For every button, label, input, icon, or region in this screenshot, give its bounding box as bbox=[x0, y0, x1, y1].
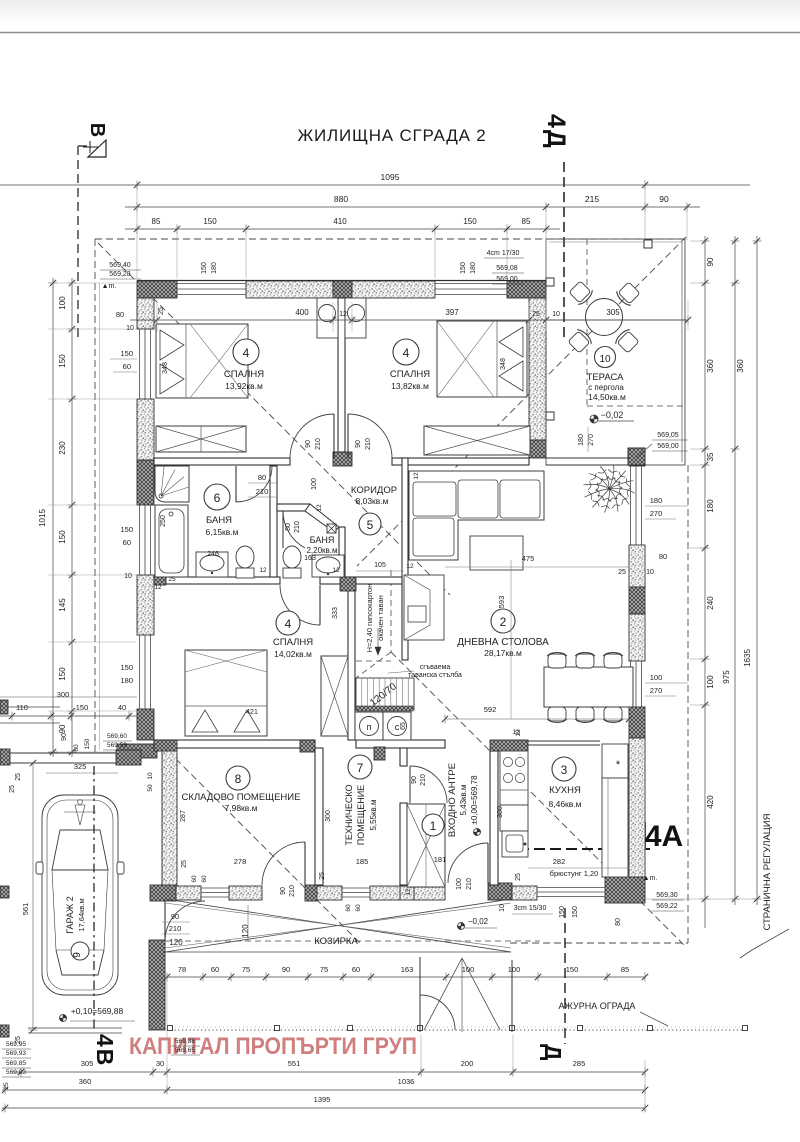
bed bedroom4 bbox=[185, 650, 267, 736]
svg-text:60: 60 bbox=[191, 875, 198, 883]
svg-text:300: 300 bbox=[497, 806, 504, 818]
technical south window bbox=[342, 887, 370, 889]
right dim column 1635 bbox=[756, 236, 758, 905]
room 4 bedroom2 label bbox=[393, 339, 419, 365]
svg-text:90: 90 bbox=[659, 194, 669, 204]
svg-text:80: 80 bbox=[116, 310, 124, 319]
svg-text:120: 120 bbox=[169, 938, 183, 947]
svg-text:СТРАНИЧНА РЕГУЛАЦИЯ: СТРАНИЧНА РЕГУЛАЦИЯ bbox=[762, 813, 773, 930]
left dim column segments bbox=[71, 278, 73, 757]
garage west posts bbox=[0, 886, 9, 898]
canopy west wall bbox=[149, 940, 165, 1030]
bath2 walls bbox=[277, 504, 310, 511]
svg-text:КОРИДОР: КОРИДОР bbox=[351, 485, 397, 496]
bottom dim row 360/1036 bbox=[2, 1089, 645, 1091]
dryer С bbox=[383, 712, 411, 740]
svg-text:569,00: 569,00 bbox=[657, 443, 679, 450]
kitchen south window bbox=[537, 887, 605, 889]
svg-text:80: 80 bbox=[659, 552, 667, 561]
svg-text:421: 421 bbox=[246, 709, 258, 716]
svg-text:185: 185 bbox=[356, 857, 369, 866]
garage north wall segments bbox=[0, 749, 10, 765]
svg-text:Н=2,40 гипсокартон: Н=2,40 гипсокартон bbox=[365, 584, 374, 653]
svg-text:1635: 1635 bbox=[743, 649, 752, 667]
svg-text:240: 240 bbox=[706, 596, 715, 610]
bathtub bath6 bbox=[155, 505, 188, 577]
svg-text:28,17кв.м: 28,17кв.м bbox=[484, 648, 522, 658]
svg-text:Д: Д bbox=[540, 1044, 566, 1060]
right dim column segments bbox=[704, 236, 706, 928]
svg-text:СПАЛНЯ: СПАЛНЯ bbox=[224, 369, 264, 380]
svg-text:150: 150 bbox=[58, 667, 67, 681]
svg-text:60: 60 bbox=[123, 538, 131, 547]
svg-text:±0,00=569,78: ±0,00=569,78 bbox=[470, 775, 479, 825]
bottom witness lines bbox=[644, 1060, 646, 1112]
svg-text:с пергола: с пергола bbox=[588, 383, 624, 392]
kitchen sink bbox=[502, 831, 528, 857]
svg-text:3cm 15/30: 3cm 15/30 bbox=[514, 905, 547, 912]
svg-text:4: 4 bbox=[285, 617, 292, 631]
door bath2 bbox=[283, 511, 305, 548]
pier between bedroom windows top bbox=[333, 281, 352, 298]
svg-text:250: 250 bbox=[160, 515, 167, 527]
svg-text:14,02кв.м: 14,02кв.м bbox=[274, 649, 312, 659]
room 10 terrace label bbox=[595, 347, 616, 368]
witness lines interior dim row bbox=[156, 302, 158, 332]
storage west wall bbox=[162, 746, 177, 885]
top dim row 1095 bbox=[0, 184, 750, 186]
bottom dim row 1395 bbox=[2, 1107, 645, 1109]
svg-text:60: 60 bbox=[355, 904, 362, 912]
svg-text:25: 25 bbox=[319, 872, 326, 880]
door canopy-west exterior bbox=[165, 901, 205, 941]
terrace outline bbox=[546, 239, 685, 465]
west step wall at garage corner bbox=[117, 744, 157, 758]
storage north wall bbox=[154, 740, 315, 748]
svg-text:8: 8 bbox=[235, 772, 242, 786]
chair bedroom2 bbox=[348, 305, 365, 322]
left witness lines bbox=[48, 282, 136, 284]
svg-text:90: 90 bbox=[282, 965, 290, 974]
svg-text:80: 80 bbox=[258, 473, 266, 482]
svg-text:90: 90 bbox=[355, 440, 362, 448]
svg-text:25: 25 bbox=[158, 307, 165, 315]
svg-text:п: п bbox=[367, 722, 372, 732]
bedroom4 east wall bbox=[348, 585, 355, 740]
svg-text:475: 475 bbox=[522, 554, 535, 563]
svg-text:150: 150 bbox=[203, 217, 217, 226]
door bath6 bbox=[236, 466, 272, 502]
dim row y714 left bbox=[0, 696, 137, 698]
svg-text:150: 150 bbox=[58, 530, 67, 544]
svg-text:120: 120 bbox=[241, 924, 250, 938]
washbasin bath2 bbox=[312, 555, 344, 577]
svg-text:▲m.: ▲m. bbox=[643, 875, 658, 882]
svg-text:150: 150 bbox=[566, 965, 579, 974]
dining chairs top row bbox=[547, 652, 567, 668]
corridor north wall bbox=[154, 458, 290, 465]
svg-text:таванска стълба: таванска стълба bbox=[408, 671, 462, 679]
svg-text:150: 150 bbox=[572, 906, 579, 918]
svg-text:1: 1 bbox=[430, 819, 437, 833]
svg-text:569,00: 569,00 bbox=[496, 276, 518, 283]
garage door sill bbox=[28, 1027, 122, 1029]
svg-text:200: 200 bbox=[461, 1059, 474, 1068]
entrance level mark bbox=[474, 829, 481, 836]
svg-text:12: 12 bbox=[413, 472, 420, 480]
svg-text:270: 270 bbox=[650, 509, 663, 518]
svg-text:180: 180 bbox=[706, 499, 715, 513]
svg-text:181: 181 bbox=[434, 855, 447, 864]
svg-text:1036: 1036 bbox=[398, 1077, 415, 1086]
east window 100/270 bbox=[630, 661, 632, 707]
door bedroom2 bbox=[348, 414, 392, 458]
svg-text:12: 12 bbox=[154, 584, 162, 591]
car in garage bbox=[36, 795, 124, 995]
storage east / technical west wall bbox=[315, 748, 323, 885]
south wall bbox=[150, 885, 176, 901]
svg-text:12: 12 bbox=[316, 504, 323, 512]
svg-text:100: 100 bbox=[311, 478, 318, 490]
ceiling break dashes at stair nook bbox=[390, 570, 392, 652]
roof hip diagonals dashed bbox=[98, 243, 450, 595]
svg-text:360: 360 bbox=[79, 1077, 92, 1086]
wardrobe bedroom1 bbox=[156, 426, 246, 452]
svg-text:569,28: 569,28 bbox=[109, 271, 131, 278]
svg-text:25: 25 bbox=[532, 311, 540, 318]
svg-text:8,03кв.м: 8,03кв.м bbox=[356, 496, 389, 506]
svg-text:6: 6 bbox=[214, 491, 221, 505]
wardrobe bedroom2 bbox=[424, 426, 530, 455]
bathrooms south wall bbox=[154, 577, 280, 584]
svg-text:12: 12 bbox=[405, 888, 412, 896]
svg-text:348: 348 bbox=[162, 362, 169, 374]
top-right corner block bbox=[507, 281, 546, 298]
svg-text:80: 80 bbox=[285, 523, 292, 531]
svg-text:75: 75 bbox=[242, 965, 250, 974]
svg-text:397: 397 bbox=[445, 308, 459, 317]
living west wall bbox=[402, 458, 408, 660]
svg-text:90: 90 bbox=[411, 776, 418, 784]
svg-text:305: 305 bbox=[606, 308, 620, 317]
svg-text:880: 880 bbox=[334, 194, 348, 204]
svg-text:5,43кв.м: 5,43кв.м bbox=[459, 784, 468, 815]
svg-text:569,08: 569,08 bbox=[496, 265, 518, 272]
svg-text:3: 3 bbox=[561, 763, 568, 777]
svg-text:551: 551 bbox=[288, 1059, 301, 1068]
svg-text:270: 270 bbox=[650, 686, 663, 695]
svg-text:АЖУРНА ОГРАДА: АЖУРНА ОГРАДА bbox=[559, 1001, 636, 1011]
svg-text:180: 180 bbox=[120, 676, 133, 685]
svg-text:150: 150 bbox=[120, 525, 133, 534]
toilet bath2 bbox=[283, 568, 301, 578]
right dim column 975/360 bbox=[734, 236, 736, 905]
svg-text:561: 561 bbox=[21, 903, 30, 916]
svg-text:60: 60 bbox=[352, 965, 360, 974]
svg-text:17,64кв.м: 17,64кв.м bbox=[77, 898, 86, 931]
door technical from nook bbox=[410, 766, 447, 803]
svg-text:13,82кв.м: 13,82кв.м bbox=[391, 381, 429, 391]
svg-text:65: 65 bbox=[400, 722, 407, 730]
svg-text:150: 150 bbox=[463, 217, 477, 226]
interior top dim row 400/397/305 bbox=[130, 319, 688, 321]
svg-text:90: 90 bbox=[61, 733, 68, 741]
svg-text:−0,02: −0,02 bbox=[601, 410, 624, 420]
room 3 kitchen label bbox=[552, 757, 576, 781]
svg-text:25: 25 bbox=[618, 569, 626, 576]
desk bedroom1 bbox=[317, 298, 338, 338]
washbasin bath6 bbox=[196, 552, 228, 577]
svg-text:180: 180 bbox=[470, 262, 477, 274]
svg-text:12: 12 bbox=[512, 729, 520, 736]
svg-text:БАНЯ: БАНЯ bbox=[310, 535, 335, 545]
toilet bath6 bbox=[236, 568, 254, 578]
svg-text:25: 25 bbox=[15, 773, 22, 781]
window bedroom4 left bbox=[139, 635, 141, 709]
svg-text:593: 593 bbox=[497, 596, 506, 609]
svg-text:246: 246 bbox=[207, 551, 219, 558]
svg-text:210: 210 bbox=[289, 885, 296, 897]
svg-text:90: 90 bbox=[58, 724, 67, 733]
svg-text:КАПИТАЛ ПРОПЪРТИ ГРУП: КАПИТАЛ ПРОПЪРТИ ГРУП bbox=[129, 1033, 417, 1060]
svg-text:410: 410 bbox=[333, 217, 347, 226]
svg-text:300: 300 bbox=[57, 690, 70, 699]
svg-text:569,30: 569,30 bbox=[656, 892, 678, 899]
top exterior wall bbox=[137, 280, 546, 282]
svg-text:2,20кв.м: 2,20кв.м bbox=[306, 546, 337, 555]
svg-text:1395: 1395 bbox=[314, 1095, 331, 1104]
svg-text:569,85: 569,85 bbox=[6, 1060, 26, 1067]
svg-text:5: 5 bbox=[367, 518, 374, 532]
entrance door bbox=[448, 843, 488, 883]
svg-text:60: 60 bbox=[201, 875, 208, 883]
washer П bbox=[355, 712, 383, 740]
tv unit bbox=[404, 575, 444, 640]
svg-text:10: 10 bbox=[646, 569, 654, 576]
svg-text:1095: 1095 bbox=[381, 172, 400, 182]
svg-text:7: 7 bbox=[357, 761, 364, 775]
svg-text:2: 2 bbox=[500, 615, 507, 629]
svg-text:325: 325 bbox=[74, 762, 87, 771]
svg-text:230: 230 bbox=[58, 441, 67, 455]
svg-text:60: 60 bbox=[73, 744, 80, 752]
terrace round table bbox=[586, 299, 623, 336]
top dim row 85-150-410-150-85 bbox=[125, 228, 560, 230]
svg-text:210: 210 bbox=[294, 521, 301, 533]
bed bedroom2 bbox=[437, 321, 527, 397]
svg-text:ТЕРАСА: ТЕРАСА bbox=[587, 372, 625, 383]
east wall bedroom2 bbox=[529, 298, 546, 440]
svg-text:210: 210 bbox=[365, 438, 372, 450]
roof eaves dashed outline bbox=[95, 238, 688, 240]
svg-text:420: 420 bbox=[706, 795, 715, 809]
svg-text:100: 100 bbox=[462, 965, 475, 974]
svg-text:БАНЯ: БАНЯ bbox=[206, 515, 232, 526]
left dim column 1015 bbox=[52, 278, 54, 757]
svg-text:50: 50 bbox=[147, 784, 154, 792]
svg-text:▲m.: ▲m. bbox=[102, 283, 117, 290]
window bedroom2 top bbox=[435, 283, 507, 285]
svg-text:40: 40 bbox=[118, 703, 126, 712]
svg-text:10: 10 bbox=[124, 573, 132, 580]
svg-text:12: 12 bbox=[259, 567, 267, 574]
svg-text:4В: 4В bbox=[92, 1034, 118, 1067]
svg-text:975: 975 bbox=[722, 670, 731, 684]
svg-text:75: 75 bbox=[320, 965, 328, 974]
fence dotted line bbox=[163, 1029, 745, 1031]
chair bedroom1 bbox=[319, 305, 336, 322]
svg-text:333: 333 bbox=[332, 607, 339, 619]
svg-text:10: 10 bbox=[499, 904, 506, 912]
svg-text:СПАЛНЯ: СПАЛНЯ bbox=[273, 637, 313, 648]
left exterior wall bbox=[137, 298, 154, 329]
svg-text:180: 180 bbox=[650, 496, 663, 505]
svg-text:4А: 4А bbox=[645, 820, 683, 853]
right witness lines bbox=[690, 240, 702, 242]
door storage (interior arc) bbox=[262, 842, 305, 885]
svg-text:12: 12 bbox=[332, 567, 340, 574]
svg-text:85: 85 bbox=[152, 217, 161, 226]
svg-text:100: 100 bbox=[650, 673, 663, 682]
door bedroom4 bbox=[280, 585, 320, 625]
svg-text:В: В bbox=[86, 123, 108, 137]
svg-text:КОЗИРКА: КОЗИРКА bbox=[314, 936, 358, 947]
svg-text:6,15кв.м: 6,15кв.м bbox=[206, 527, 239, 537]
svg-text:брюстунг 1,20: брюстунг 1,20 bbox=[550, 869, 599, 878]
shower bath6 bbox=[155, 466, 189, 502]
svg-text:90: 90 bbox=[171, 912, 179, 921]
svg-text:305: 305 bbox=[81, 1059, 94, 1068]
SE corner block bbox=[605, 877, 645, 903]
svg-text:287: 287 bbox=[180, 810, 187, 822]
svg-text:210: 210 bbox=[256, 487, 269, 496]
east window 180/270 bbox=[630, 466, 632, 545]
svg-text:30: 30 bbox=[156, 1059, 164, 1068]
svg-text:180: 180 bbox=[578, 434, 585, 446]
svg-text:569,22: 569,22 bbox=[656, 903, 678, 910]
svg-text:210: 210 bbox=[466, 878, 473, 890]
coffee table bbox=[470, 536, 523, 570]
svg-text:+0,10=569,88: +0,10=569,88 bbox=[71, 1006, 124, 1016]
gate structure bbox=[419, 957, 421, 1032]
svg-text:25: 25 bbox=[181, 860, 188, 868]
svg-text:13,92кв.м: 13,92кв.м bbox=[225, 381, 263, 391]
pergola dashed edge bbox=[586, 239, 588, 406]
svg-text:163: 163 bbox=[304, 555, 316, 562]
duct symbol bbox=[327, 524, 336, 533]
svg-text:35: 35 bbox=[706, 452, 715, 461]
svg-text:145: 145 bbox=[58, 598, 67, 612]
witness lines top bbox=[136, 232, 138, 278]
svg-text:90: 90 bbox=[305, 440, 312, 448]
scanned page top band bbox=[0, 0, 800, 22]
svg-text:14,50кв.м: 14,50кв.м bbox=[588, 392, 626, 402]
svg-text:282: 282 bbox=[553, 857, 566, 866]
gate pedestrian door arc bbox=[420, 995, 455, 1030]
svg-text:150: 150 bbox=[460, 262, 467, 274]
svg-text:90: 90 bbox=[706, 257, 715, 266]
svg-text:60: 60 bbox=[123, 362, 131, 371]
top separator line bbox=[0, 32, 800, 34]
storage south window bbox=[201, 887, 229, 889]
svg-text:25: 25 bbox=[168, 576, 176, 583]
dining chairs bottom row bbox=[547, 707, 567, 723]
svg-text:ПОМЕЩЕНИЕ: ПОМЕЩЕНИЕ bbox=[356, 785, 366, 845]
svg-text:ТЕХНИЧЕСКО: ТЕХНИЧЕСКО bbox=[344, 784, 354, 845]
room 1 entrance label bbox=[422, 814, 444, 836]
svg-text:592: 592 bbox=[484, 705, 497, 714]
attic ladder bbox=[356, 678, 414, 710]
svg-text:300: 300 bbox=[325, 810, 332, 822]
kitchen fridge bbox=[602, 744, 628, 778]
svg-text:ЖИЛИЩНА СГРАДА 2: ЖИЛИЩНА СГРАДА 2 bbox=[298, 126, 487, 145]
svg-text:10: 10 bbox=[126, 325, 134, 332]
svg-text:348: 348 bbox=[500, 358, 507, 370]
section line 4В through garage (over car) bbox=[93, 766, 95, 1032]
svg-text:10: 10 bbox=[599, 354, 611, 365]
svg-text:360: 360 bbox=[736, 359, 745, 373]
section line Д bottom bbox=[564, 908, 566, 1044]
svg-text:100: 100 bbox=[508, 965, 521, 974]
tech-entrance divider wall bbox=[400, 748, 407, 766]
wardrobe bedroom4 bbox=[321, 656, 348, 736]
window bedroom1 top bbox=[177, 283, 246, 285]
svg-text:8,46кв.м: 8,46кв.м bbox=[549, 799, 582, 809]
svg-text:4cm 17/30: 4cm 17/30 bbox=[487, 250, 520, 257]
svg-text:85: 85 bbox=[621, 965, 629, 974]
svg-text:12: 12 bbox=[406, 563, 414, 570]
top-left corner block bbox=[137, 281, 177, 298]
room 8 storage label bbox=[226, 766, 250, 790]
room 2 living label bbox=[491, 609, 515, 633]
svg-text:окачен таван: окачен таван bbox=[376, 595, 385, 641]
svg-text:400: 400 bbox=[295, 308, 309, 317]
svg-text:60: 60 bbox=[211, 965, 219, 974]
svg-text:ДНЕВНА СТОЛОВА: ДНЕВНА СТОЛОВА bbox=[457, 637, 549, 648]
svg-text:569,05: 569,05 bbox=[657, 432, 679, 439]
svg-text:163: 163 bbox=[401, 965, 414, 974]
svg-text:25: 25 bbox=[9, 785, 16, 793]
svg-text:569,93: 569,93 bbox=[6, 1050, 26, 1057]
window bedroom1 left bbox=[139, 329, 141, 399]
bottom dim row 305/30/551/200/285 bbox=[12, 1071, 645, 1073]
svg-text:150: 150 bbox=[84, 738, 91, 749]
svg-text:110: 110 bbox=[16, 703, 28, 712]
svg-text:180: 180 bbox=[211, 262, 218, 274]
bath6 east wall bbox=[270, 466, 277, 577]
room 6 bath label bbox=[204, 484, 230, 510]
svg-text:5,55кв.м: 5,55кв.м bbox=[369, 799, 378, 830]
terrace chairs bbox=[568, 280, 595, 307]
svg-text:−0,02: −0,02 bbox=[468, 917, 489, 926]
technical north wall bbox=[356, 740, 445, 748]
svg-text:100: 100 bbox=[456, 878, 463, 890]
svg-text:150: 150 bbox=[201, 262, 208, 274]
svg-text:569,88: 569,88 bbox=[175, 1038, 195, 1045]
kitchen counter east bbox=[602, 778, 628, 877]
svg-text:сгъваема: сгъваема bbox=[420, 664, 451, 671]
svg-text:100: 100 bbox=[706, 675, 715, 689]
svg-text:100: 100 bbox=[58, 296, 67, 310]
svg-text:с: с bbox=[395, 722, 400, 732]
svg-text:569,60: 569,60 bbox=[107, 733, 127, 740]
neighbour building fragment left edge bbox=[0, 700, 8, 714]
room 4 bedroom1 label bbox=[233, 339, 259, 365]
terrace SE post bbox=[628, 448, 645, 465]
top dim row 880-215-90 bbox=[125, 206, 700, 208]
svg-text:*: * bbox=[616, 759, 621, 771]
divider wall bedrooms 1-2 bbox=[338, 298, 345, 452]
